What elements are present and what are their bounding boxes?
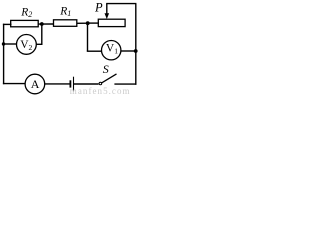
svg-text:V1: V1 [106,42,118,55]
svg-text:V2: V2 [20,39,32,52]
battery long plate [73,77,75,92]
wire top-left horizontal [3,23,12,25]
wire V2 right horizontal [36,43,42,45]
wire V1 drop vertical [87,23,89,51]
wire right vertical [135,4,137,85]
wire top right horizontal [106,3,136,5]
wire switch to bottom right corner [114,83,136,85]
wire dot2 to rheostat [88,22,99,24]
wire V2 left horizontal [3,43,17,45]
battery short plate [70,80,72,87]
node junction dot 1 [40,22,44,26]
rheostat slider arrow P [106,4,108,15]
resistor R2 [11,20,39,26]
voltmeter V1 [102,41,121,60]
resistor R1 [54,20,77,27]
node junction dot 2 [86,21,90,25]
wire left vertical [3,24,5,84]
wire V1 right horizontal [121,50,136,52]
wire V2 drop vertical [41,24,43,44]
svg-text:A: A [31,77,40,91]
wire R1 to dot2 [77,22,88,24]
ammeter A [25,74,45,94]
voltmeter V2 [17,35,37,55]
svg-text:S: S [103,62,109,76]
wire R2 to R1 [38,23,54,25]
switch blade [102,74,117,83]
svg-text:P: P [94,1,103,15]
wire bottom left horizontal [3,83,25,85]
svg-text:manfen5.com: manfen5.com [70,86,131,95]
svg-text:R2: R2 [20,6,32,19]
wire V1 left horizontal [87,50,102,52]
wire ammeter to battery [45,83,70,85]
svg-text:R1: R1 [59,5,71,18]
switch S pivot [99,82,102,85]
node junction dot left [2,42,5,45]
rheostat body [98,19,125,26]
wire battery to switch [74,83,99,85]
node junction dot right [134,49,138,53]
